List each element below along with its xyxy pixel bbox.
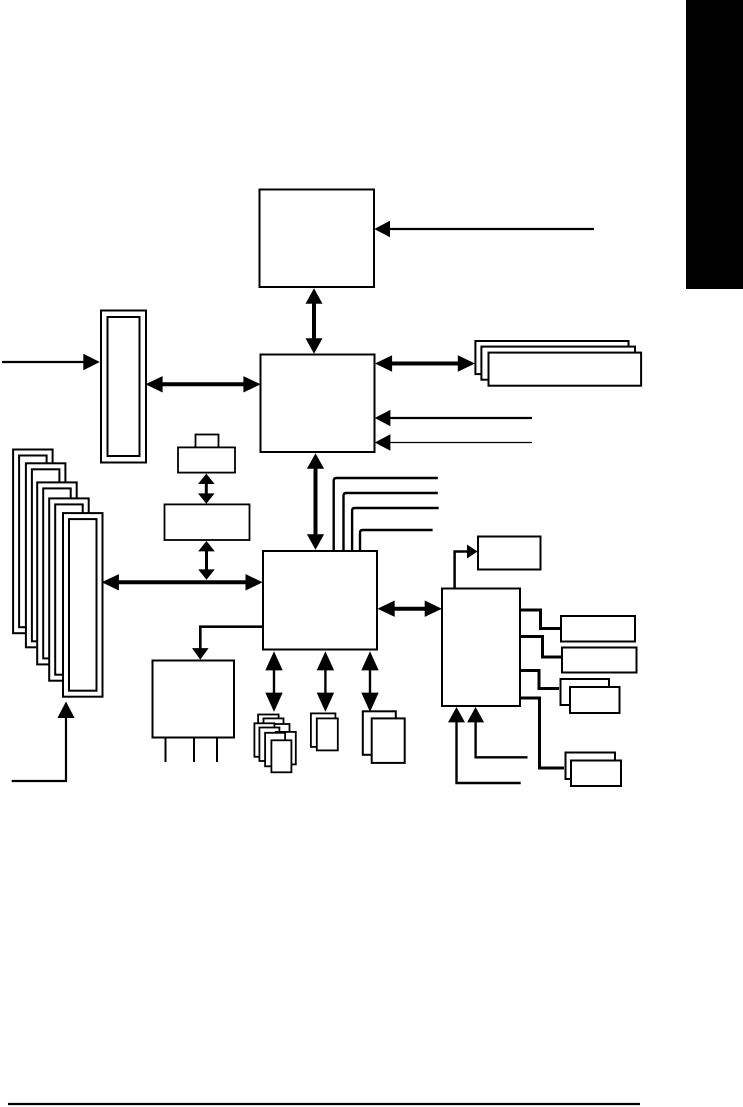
arrow NB-SB <box>307 453 324 550</box>
arrow CPU-NB <box>306 288 323 354</box>
bundle wire 4 <box>360 530 433 551</box>
right box 4 double <box>566 753 622 787</box>
floppy box <box>478 537 541 570</box>
stub wire 1 <box>521 610 561 629</box>
bundle wire 2 <box>344 493 438 551</box>
stub wire 4 <box>521 698 565 768</box>
bundle wire 3 <box>352 508 439 551</box>
wire up into IO bottom right <box>467 707 527 757</box>
NB north bridge box <box>261 355 375 453</box>
arrow NB-DIMM <box>375 355 475 371</box>
clock buffer box <box>165 504 250 540</box>
USB ports cluster <box>254 715 295 773</box>
arrow clockgen-buffer <box>198 474 215 504</box>
BIOS box with legs <box>153 661 235 763</box>
arrow SB-IO <box>378 601 442 617</box>
CPU box <box>260 190 375 288</box>
wire clock input to CPU <box>374 221 594 238</box>
arrow buffer-PCI bus <box>198 541 215 580</box>
ports cluster 3 <box>363 711 405 763</box>
wire into NB right lower <box>375 434 532 451</box>
bundle wire 1 <box>334 478 438 551</box>
arrow PCI-SB <box>102 574 263 590</box>
footer rule <box>8 1103 640 1105</box>
arrow SB-ports2 <box>317 651 334 712</box>
stub wire 3 <box>521 671 560 689</box>
wire input to PCI from bottom <box>12 702 75 782</box>
wire SB-BIOS <box>192 627 263 660</box>
IO controller box <box>442 589 520 707</box>
DDR DIMM stack <box>475 341 641 386</box>
wire up into IO bottom left <box>448 707 521 783</box>
stub wire 2 <box>521 637 562 658</box>
arrow SB-USB <box>265 651 282 712</box>
clock generator box with tab <box>178 435 235 473</box>
ports cluster 2 <box>311 713 338 750</box>
wire IO-floppy <box>455 545 478 589</box>
AGP slot <box>101 311 146 463</box>
right box 2 <box>562 648 637 673</box>
SB south bridge box <box>263 551 377 650</box>
black page tab <box>686 0 743 289</box>
wire into NB right upper <box>375 410 532 427</box>
arrow SB-ports3 <box>361 651 378 712</box>
PCI slots stack <box>13 450 102 697</box>
wire display input to AGP <box>2 354 100 371</box>
right box 3 double <box>561 679 620 713</box>
right box 1 <box>561 616 635 642</box>
arrow AGP-NB <box>145 376 260 392</box>
